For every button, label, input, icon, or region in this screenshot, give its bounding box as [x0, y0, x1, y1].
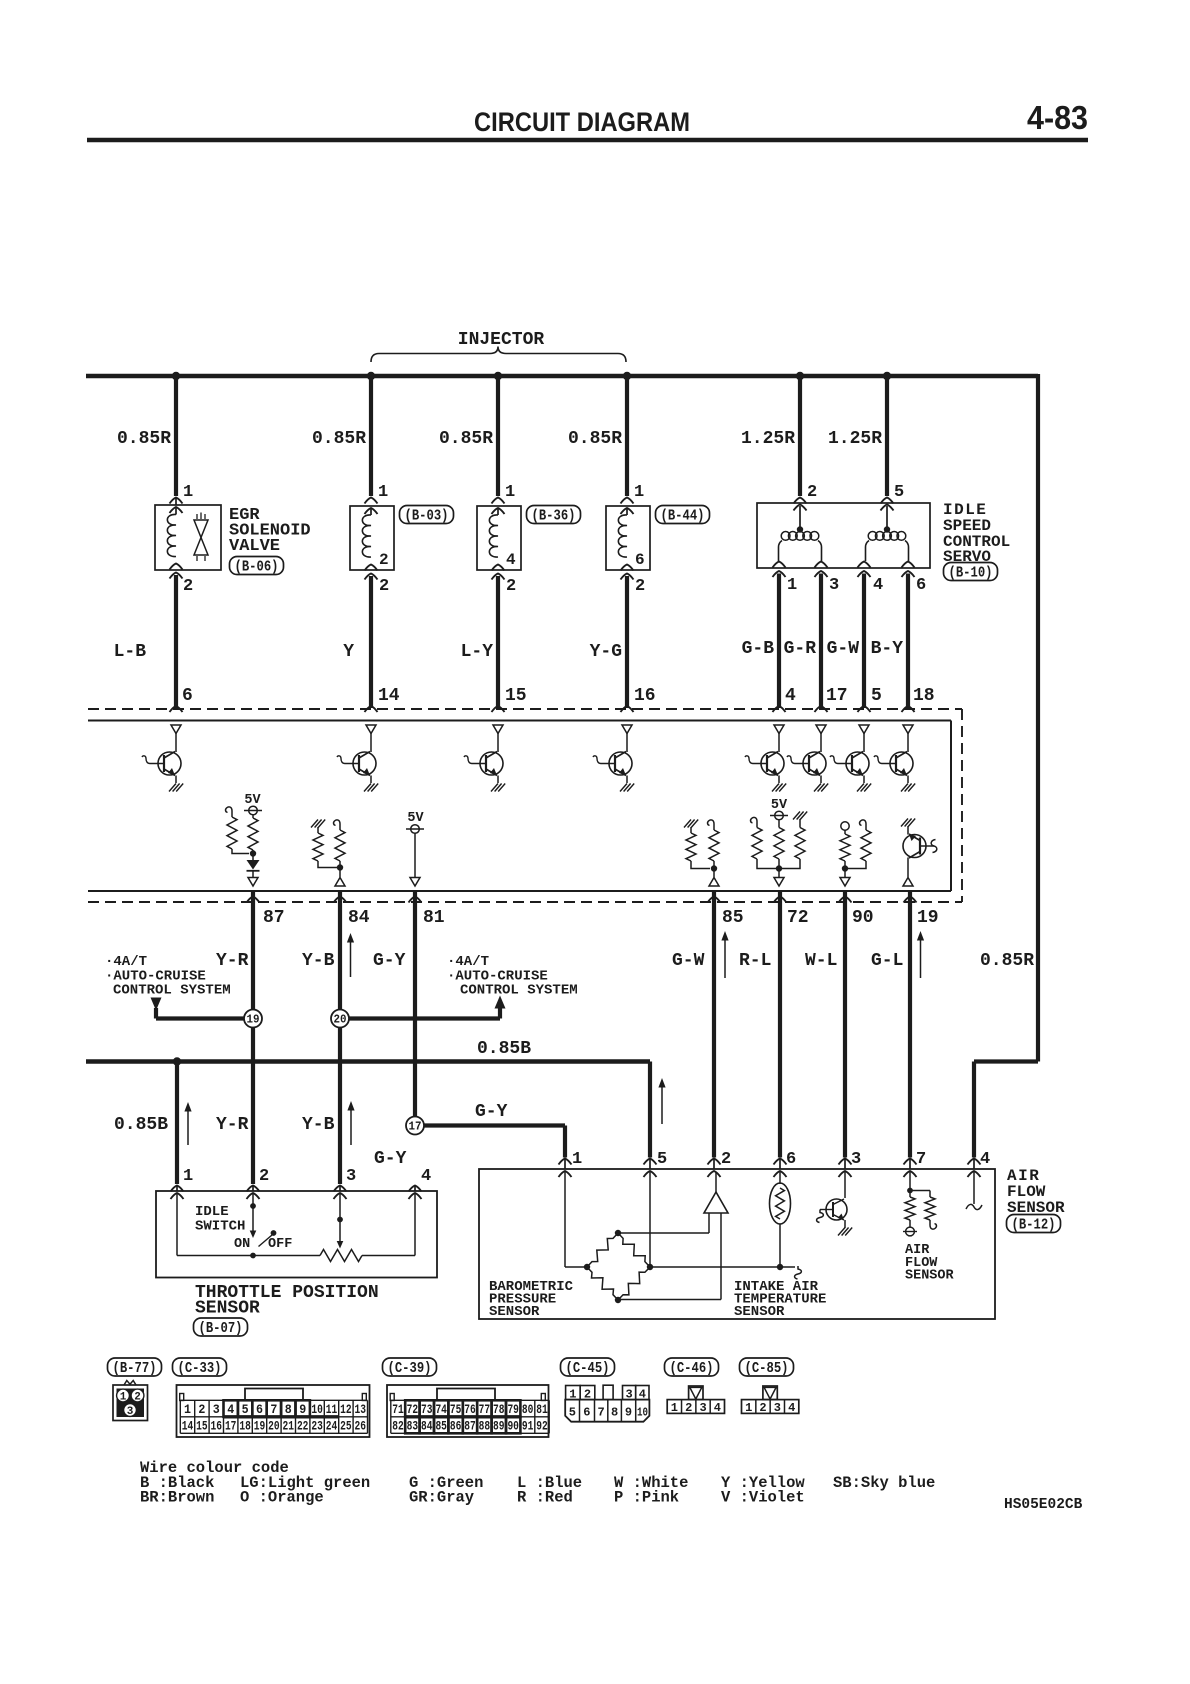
tag C-45	[561, 1358, 615, 1377]
TPS resistor track	[177, 1250, 415, 1262]
barometric bridge resistor TL	[587, 1233, 618, 1267]
connector chevron servo pin2 harness	[794, 498, 807, 504]
svg-text:SENSOR: SENSOR	[734, 1304, 785, 1320]
label G-W	[672, 951, 705, 971]
wire EGR drop	[174, 376, 178, 496]
annotation 4A/T right	[447, 954, 489, 970]
svg-text:10: 10	[311, 1403, 323, 1417]
connector chevron (B-36) pin2 harness	[492, 574, 505, 580]
svg-text:81: 81	[423, 908, 445, 928]
svg-text:(C-46): (C-46)	[670, 1361, 714, 1377]
wire G-Y branch	[424, 1126, 565, 1158]
connector chevron (B-44) pin1 harness	[621, 498, 634, 504]
flow arrow Y-B upper	[347, 933, 354, 977]
connector chevron servo pin5 device	[881, 505, 894, 511]
connector chevron (B-44) pin2 harness	[621, 574, 634, 580]
label 0.85R (injector B-44)	[568, 429, 622, 449]
ECU input marker pin x371	[366, 725, 376, 734]
pin 3 servo out	[829, 576, 839, 595]
svg-text:1: 1	[569, 1388, 576, 1402]
svg-text:1: 1	[745, 1401, 752, 1415]
pin 87 ECU bottom	[263, 908, 285, 928]
connector chevron servo out x779 device	[773, 562, 786, 568]
pin 4 inside (B-36)	[506, 551, 516, 569]
connector C-33 body	[177, 1385, 370, 1437]
bridge node bottom	[615, 1297, 621, 1303]
svg-text:2: 2	[134, 1392, 141, 1404]
connector chevron AFS pin5 device	[644, 1171, 657, 1177]
wire 0.85R vertical right branch	[1036, 374, 1040, 1062]
wire G-R	[819, 574, 823, 709]
connector chevron servo pin2 device	[794, 505, 807, 511]
connector chevron ECU pin72	[774, 897, 787, 903]
AFS pin4 stub	[973, 1172, 975, 1204]
svg-text:11: 11	[326, 1403, 338, 1417]
wire injector (B-44) drop	[625, 376, 629, 496]
svg-text:O :Orange: O :Orange	[240, 1489, 324, 1507]
svg-text:17: 17	[409, 1120, 422, 1134]
connector chevron (B-03) pin1 device	[365, 508, 378, 514]
flow arrow Y-B lower	[347, 1101, 354, 1145]
label W-L	[805, 951, 837, 971]
wire AFS pin2 drop	[712, 891, 716, 1158]
node junction servo coil B	[883, 372, 891, 380]
tag B-10	[944, 563, 998, 582]
svg-text:21: 21	[283, 1420, 295, 1434]
pin 2 below (B-03)	[379, 577, 389, 596]
pin 2 below (B-36)	[506, 577, 516, 596]
connector chevron servo out x908 device	[902, 562, 915, 568]
ECU network pin84	[311, 820, 345, 878]
svg-text:5: 5	[242, 1403, 249, 1417]
injector coil (B-36)	[489, 509, 498, 557]
label Y-G	[590, 642, 622, 662]
connector C-46 pin numbers	[671, 1401, 721, 1415]
ECU input marker pin x779	[774, 725, 784, 734]
svg-text:(C-45): (C-45)	[566, 1361, 610, 1377]
label 0.85B lower	[114, 1115, 168, 1135]
svg-text:83: 83	[407, 1420, 419, 1434]
label 0.85R (injector B-03)	[312, 429, 366, 449]
svg-text:78: 78	[493, 1403, 505, 1417]
svg-text:1: 1	[183, 1167, 193, 1186]
wire G-B	[777, 574, 781, 709]
svg-text:75: 75	[450, 1403, 462, 1417]
svg-text:SENSOR: SENSOR	[489, 1304, 540, 1320]
svg-text:INJECTOR: INJECTOR	[458, 330, 545, 350]
svg-text:G-W: G-W	[827, 639, 860, 659]
wire branch to auto-cruise	[348, 1007, 500, 1019]
node 17 circled on G-Y	[406, 1117, 424, 1135]
connector chevron AFS pin5 harness	[644, 1159, 657, 1165]
ECU output marker pin81	[410, 878, 420, 887]
wire AFS stub pin7	[909, 1159, 911, 1169]
annotation 4A/T left	[105, 954, 147, 970]
op-amp input left	[618, 1213, 709, 1233]
node 20 circled	[331, 1010, 349, 1028]
connector chevron (B-36) pin2 device	[492, 565, 505, 571]
svg-text:1: 1	[787, 576, 797, 595]
label SPEED	[943, 517, 991, 535]
wire AFS stub pin6	[779, 1159, 781, 1169]
svg-text:5: 5	[657, 1150, 667, 1169]
svg-text:1.25R: 1.25R	[741, 429, 795, 449]
svg-text:1: 1	[505, 483, 515, 502]
page number 4-83	[1027, 99, 1088, 136]
flow arrow pin19 wire	[917, 931, 924, 978]
label G-Y lower	[374, 1149, 407, 1169]
svg-text:(C-85): (C-85)	[745, 1361, 789, 1377]
svg-text:15: 15	[196, 1420, 208, 1434]
svg-text:ON: ON	[234, 1237, 250, 1252]
svg-text:Y-R: Y-R	[216, 951, 249, 971]
page header rule	[87, 138, 1088, 143]
svg-text:6: 6	[256, 1403, 263, 1417]
svg-text:1: 1	[378, 483, 388, 502]
svg-text:W-L: W-L	[805, 951, 837, 971]
label G-Y upper	[373, 951, 406, 971]
connector chevron ECU pin15	[492, 706, 505, 712]
connector chevron AFS pin4 harness	[968, 1159, 981, 1165]
svg-text:89: 89	[493, 1420, 505, 1434]
connector chevron TPS x253 harness	[247, 1186, 260, 1192]
ECU driver transistor Q5	[745, 734, 784, 784]
connector chevron AFS pin2 device	[708, 1171, 721, 1177]
ground Q6	[814, 784, 828, 792]
svg-text:4: 4	[788, 1401, 795, 1415]
label Y	[343, 642, 354, 662]
TPS pin4 inner wire	[414, 1194, 416, 1256]
svg-text:5: 5	[871, 686, 882, 706]
label FLOW inner	[905, 1256, 938, 1271]
ECU input marker pin x864	[859, 725, 869, 734]
connector chevron servo out x821 harness	[815, 571, 828, 577]
svg-text:CONTROL SYSTEM: CONTROL SYSTEM	[460, 983, 578, 999]
svg-text:4: 4	[714, 1401, 721, 1415]
svg-text:2: 2	[506, 577, 516, 596]
svg-text:72: 72	[787, 908, 809, 928]
svg-text:84: 84	[421, 1420, 433, 1434]
pin 18 ECU	[913, 686, 935, 706]
label ON	[234, 1237, 250, 1252]
pin 2 below (B-44)	[635, 577, 645, 596]
connector chevron AFS pin3 device	[839, 1171, 852, 1177]
svg-text:9: 9	[625, 1406, 632, 1420]
svg-text:86: 86	[450, 1420, 462, 1434]
svg-text:B-Y: B-Y	[871, 639, 904, 659]
connector chevron ECU top x908	[902, 706, 915, 712]
intake air temp thermistor	[770, 1172, 791, 1267]
label BAROMETRIC	[489, 1279, 574, 1295]
ECU output marker pin72	[774, 878, 784, 887]
connector C-85 body	[742, 1386, 799, 1413]
op-amp input right	[618, 1213, 721, 1300]
svg-text:13: 13	[355, 1403, 367, 1417]
svg-text:3: 3	[127, 1406, 134, 1418]
svg-text:23: 23	[311, 1420, 323, 1434]
servo coil A	[779, 506, 822, 561]
flow arrow 0.85B left	[184, 1102, 191, 1145]
pin 6 inside (B-44)	[635, 551, 645, 569]
connector chevron servo out x908 harness	[902, 571, 915, 577]
ECU output marker pin84	[335, 878, 345, 887]
svg-text:L-B: L-B	[114, 642, 147, 662]
arrow to auto-cruise	[495, 996, 506, 1009]
pin 1 injector (B-36)	[505, 483, 515, 502]
ECU driver transistor Q7	[830, 734, 869, 784]
svg-text:87: 87	[263, 908, 285, 928]
svg-text:2: 2	[807, 483, 817, 502]
connector chevron AFS pin2 harness	[708, 1159, 721, 1165]
EGR valve symbol	[194, 513, 208, 562]
wire TPS stub x177	[176, 1186, 178, 1191]
label L-B	[114, 642, 147, 662]
bridge node left	[584, 1264, 590, 1270]
ECU driver transistor Q6	[787, 734, 826, 784]
ground Q7	[857, 784, 871, 792]
connector chevron ECU pin84	[334, 897, 347, 903]
svg-text:73: 73	[421, 1403, 433, 1417]
svg-text:(B-07): (B-07)	[199, 1321, 243, 1337]
connector chevron AFS pin4 device	[968, 1171, 981, 1177]
svg-text:7: 7	[270, 1403, 277, 1417]
svg-text:4: 4	[639, 1388, 646, 1402]
connector chevron ECU pin19	[904, 897, 917, 903]
svg-text:G-Y: G-Y	[374, 1149, 407, 1169]
svg-text:72: 72	[407, 1403, 419, 1417]
connector chevron TPS x340 device	[334, 1193, 347, 1199]
injector (B-44) box	[606, 506, 650, 570]
svg-text:(C-39): (C-39)	[388, 1361, 432, 1377]
svg-text:5: 5	[569, 1406, 576, 1420]
label SWITCH	[195, 1219, 245, 1235]
wire Y-R	[251, 891, 255, 1184]
tag (B-36)	[527, 506, 581, 525]
label Y-R upper	[216, 951, 249, 971]
connector C-33 pin numbers	[182, 1403, 366, 1434]
label FLOW right	[1007, 1183, 1046, 1201]
label SOLENOID	[229, 522, 311, 541]
svg-text:0.85R: 0.85R	[117, 429, 171, 449]
svg-text:16: 16	[211, 1420, 223, 1434]
svg-text:22: 22	[297, 1420, 309, 1434]
label HS05E02CB	[1004, 1497, 1083, 1513]
connector chevron TPS x415 harness	[409, 1186, 422, 1192]
svg-text:V :Violet: V :Violet	[721, 1489, 805, 1507]
node 19 circled	[244, 1010, 262, 1028]
bridge wire pin5	[649, 1172, 651, 1267]
annotation AUTO-CRUISE right	[447, 969, 548, 985]
wire AFS stub pin3	[844, 1159, 846, 1169]
svg-text:3: 3	[346, 1167, 356, 1186]
connector C-45 pin numbers	[569, 1388, 648, 1420]
label INJECTOR	[458, 330, 545, 350]
label B-Y	[871, 639, 904, 659]
ECU solid border bottom	[88, 890, 951, 892]
connector chevron ECU pin81	[409, 897, 422, 903]
label L-Y	[461, 642, 494, 662]
connector C-45 body	[565, 1385, 649, 1422]
tag C-33	[173, 1358, 227, 1377]
connector chevron ECU pin90	[839, 897, 852, 903]
ground AFS transistor	[838, 1228, 852, 1236]
flow arrow pin85 wire	[721, 931, 728, 978]
node junction injector2	[494, 372, 502, 380]
ECU transistor pin19	[901, 819, 937, 878]
barometric bridge resistor TR	[618, 1233, 650, 1267]
connector chevron (B-44) pin1 device	[621, 508, 634, 514]
svg-text:19: 19	[917, 908, 939, 928]
svg-text:4: 4	[785, 686, 796, 706]
connector B-77 body	[113, 1381, 148, 1421]
connector chevron servo pin5 harness	[881, 498, 894, 504]
ground Q5	[772, 784, 786, 792]
label SENSOR baro	[489, 1304, 540, 1320]
svg-text:6: 6	[583, 1406, 590, 1420]
svg-text:2: 2	[759, 1401, 766, 1415]
label 1.25R (servo A)	[741, 429, 795, 449]
svg-text:14: 14	[378, 686, 400, 706]
svg-text:3: 3	[625, 1388, 632, 1402]
label CONTROL	[943, 533, 1010, 551]
barometric bridge resistor BL	[587, 1267, 618, 1300]
svg-text:15: 15	[505, 686, 527, 706]
label PRESSURE	[489, 1292, 556, 1308]
wire AFS pin3 drop	[843, 891, 847, 1158]
ECU network pin72	[751, 798, 808, 877]
wire EGR stub	[175, 498, 177, 505]
connector chevron EGR pin2 device	[170, 564, 183, 570]
tag B-06	[230, 557, 284, 576]
svg-text:(B-06): (B-06)	[235, 560, 279, 576]
connector B-77 cavity 3	[124, 1404, 137, 1418]
ECU network pin90	[840, 820, 871, 877]
svg-text:17: 17	[826, 686, 848, 706]
svg-text:3: 3	[774, 1401, 781, 1415]
ECU input marker pin x627	[622, 725, 632, 734]
label Y-B lower	[302, 1115, 335, 1135]
svg-text:2: 2	[198, 1403, 205, 1417]
wire break right of bridge	[795, 1266, 802, 1279]
ECU output marker pin87	[248, 878, 258, 887]
svg-text:0.85B: 0.85B	[114, 1115, 168, 1135]
svg-text:26: 26	[355, 1420, 367, 1434]
wire Y-B	[338, 891, 342, 1184]
svg-text:CONTROL SYSTEM: CONTROL SYSTEM	[113, 983, 231, 999]
svg-text:3: 3	[213, 1403, 220, 1417]
wire colour code row 2	[140, 1489, 805, 1507]
svg-text:GR:Gray: GR:Gray	[409, 1489, 474, 1507]
ECU driver transistor Q1	[142, 734, 181, 784]
pin 3 TPS	[346, 1167, 356, 1186]
tag C-46	[665, 1358, 719, 1377]
svg-text:79: 79	[507, 1403, 519, 1417]
label SENSOR right	[1007, 1199, 1065, 1217]
label Y-B upper	[302, 951, 335, 971]
wire AFS stub pin1	[564, 1159, 566, 1169]
svg-text:4: 4	[227, 1403, 234, 1417]
connector chevron ECU pin16	[621, 706, 634, 712]
label G-W	[827, 639, 860, 659]
svg-text:2: 2	[183, 577, 193, 596]
svg-text:BR:Brown: BR:Brown	[140, 1489, 214, 1507]
svg-text:Y-R: Y-R	[216, 1115, 249, 1135]
connector chevron ECU pin14	[365, 706, 378, 712]
svg-text:3: 3	[829, 576, 839, 595]
tag (B-44)	[656, 506, 710, 525]
label 1.25R (servo B)	[828, 429, 882, 449]
connector chevron TPS x253 device	[247, 1193, 260, 1199]
svg-text:2: 2	[685, 1401, 692, 1415]
pin 1 injector (B-03)	[378, 483, 388, 502]
tag C-85	[740, 1358, 794, 1377]
ECU driver transistor Q8	[874, 734, 913, 784]
TPS idle switch	[250, 1194, 277, 1258]
connector chevron servo out x864 harness	[858, 571, 871, 577]
label VALVE	[229, 537, 280, 556]
svg-text:4: 4	[980, 1150, 990, 1169]
svg-text:L-Y: L-Y	[461, 642, 494, 662]
air flow sensor box	[479, 1169, 995, 1319]
svg-text:Y: Y	[343, 642, 354, 662]
svg-text:SWITCH: SWITCH	[195, 1219, 245, 1235]
ECU dashed border top	[88, 708, 962, 710]
wire L-Y	[496, 576, 500, 708]
svg-text:4-83: 4-83	[1027, 99, 1088, 136]
pin 6 ECU	[182, 686, 193, 706]
label SENSOR TPS	[195, 1299, 260, 1319]
op-amp output wire	[715, 1172, 717, 1192]
wire B-Y	[906, 574, 910, 709]
svg-text:G-Y: G-Y	[373, 951, 406, 971]
label Y-R lower	[216, 1115, 249, 1135]
annotation CONTROL SYSTEM right	[460, 983, 578, 999]
svg-text:VALVE: VALVE	[229, 537, 280, 556]
pin 1 injector (B-44)	[634, 483, 644, 502]
svg-text:5V: 5V	[407, 811, 424, 826]
label OFF	[268, 1237, 292, 1252]
arrow into 4A/T branch	[151, 998, 162, 1011]
svg-text:20: 20	[268, 1420, 280, 1434]
wire 0.85B drop to TPS	[175, 1062, 179, 1185]
label 0.85R right	[980, 951, 1034, 971]
wire bridge right to thermistor	[650, 1266, 795, 1268]
pin 4 AFS	[980, 1150, 990, 1169]
svg-text:1: 1	[183, 483, 193, 502]
annotation AUTO-CRUISE left	[105, 969, 206, 985]
pin 3 AFS	[851, 1150, 861, 1169]
connector chevron AFS pin1 device	[559, 1171, 572, 1177]
svg-text:4: 4	[506, 551, 516, 569]
wire AFS pin6 drop	[778, 891, 782, 1158]
svg-text:1: 1	[572, 1150, 582, 1169]
bridge node right	[647, 1264, 653, 1270]
ECU dashed border right	[961, 709, 963, 902]
pin 17 ECU	[826, 686, 848, 706]
svg-text:(C-33): (C-33)	[178, 1361, 222, 1377]
svg-text:2: 2	[379, 577, 389, 596]
svg-text:5: 5	[894, 483, 904, 502]
wire TPS stub x253	[252, 1186, 254, 1191]
connector chevron TPS x415 device	[409, 1193, 422, 1199]
svg-text:G-B: G-B	[742, 639, 775, 659]
wire Y	[369, 576, 373, 708]
ECU output marker pin90	[840, 878, 850, 887]
EGR solenoid valve box	[155, 505, 221, 570]
wire injector (B-36) drop	[496, 376, 500, 496]
TPS wiper	[337, 1194, 344, 1249]
svg-text:10: 10	[637, 1406, 648, 1420]
